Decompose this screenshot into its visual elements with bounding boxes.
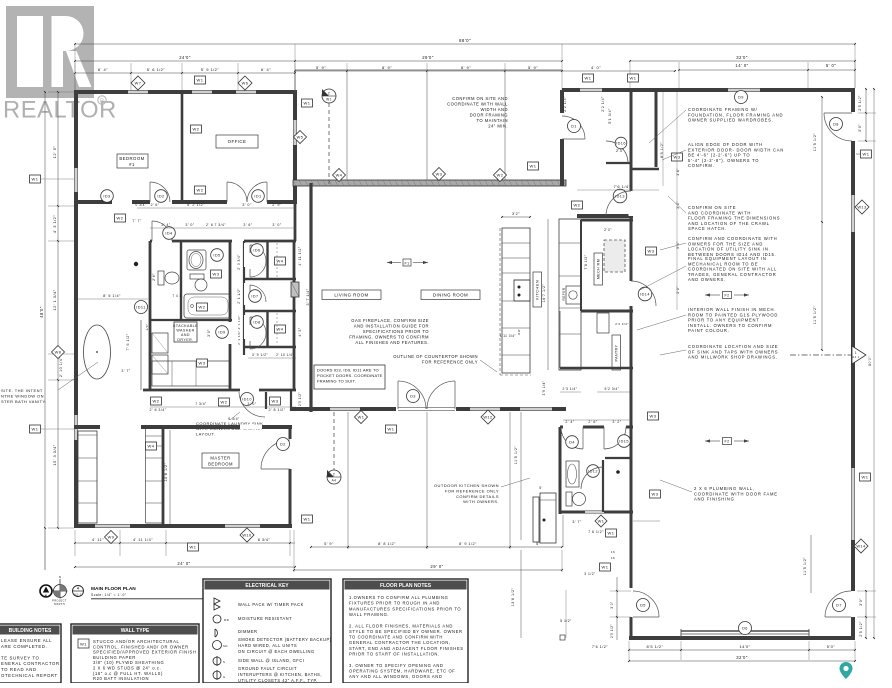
svg-text:5'1 3/4": 5'1 3/4" — [608, 108, 612, 124]
svg-text:BUILDING PAPER: BUILDING PAPER — [93, 655, 136, 660]
svg-text:DW: DW — [517, 329, 521, 335]
svg-text:2' 3 3/4": 2' 3 3/4" — [237, 254, 241, 270]
svg-text:1.OWNERS TO CONFIRM ALL PLUMBI: 1.OWNERS TO CONFIRM ALL PLUMBING — [349, 595, 448, 600]
svg-text:2'5 1/2": 2'5 1/2" — [298, 392, 302, 406]
svg-text:3' 9 1/2": 3' 9 1/2" — [252, 353, 269, 357]
svg-text:4' 3 1/2": 4' 3 1/2" — [52, 215, 57, 234]
svg-text:3/8" (10) PLYWD SHEATHING: 3/8" (10) PLYWD SHEATHING — [93, 660, 164, 665]
svg-text:ALL FINISHES AND FEATURES.: ALL FINISHES AND FEATURES. — [355, 340, 429, 345]
svg-text:POCKET DOORS. COORDINATE: POCKET DOORS. COORDINATE — [317, 373, 383, 378]
svg-text:SD: SD — [223, 644, 228, 648]
svg-text:INTERIOR WALL FINISH IN MECH.: INTERIOR WALL FINISH IN MECH. — [688, 307, 776, 312]
svg-text:FRAMING TO SUIT.: FRAMING TO SUIT. — [317, 379, 356, 384]
svg-text:0 3/4": 0 3/4" — [136, 203, 147, 207]
svg-text:5' 9": 5' 9" — [528, 65, 538, 70]
svg-text:W1: W1 — [585, 76, 592, 81]
svg-text:GROUND FAULT CIRCUIT: GROUND FAULT CIRCUIT — [238, 666, 297, 671]
svg-text:ALIGN EDGE OF DOOR WITH: ALIGN EDGE OF DOOR WITH — [688, 142, 763, 147]
svg-text:2'5 1/2": 2'5 1/2" — [610, 624, 614, 638]
svg-text:WASHER: WASHER — [176, 329, 194, 333]
svg-text:FINAL EQUIPMENT LAYOUT IN: FINAL EQUIPMENT LAYOUT IN — [688, 256, 767, 261]
svg-text:FLOOR PLAN NOTES: FLOOR PLAN NOTES — [380, 583, 432, 589]
svg-text:ID16: ID16 — [616, 142, 626, 146]
svg-text:32'0": 32'0" — [736, 55, 748, 60]
svg-text:5' 9": 5' 9" — [324, 542, 334, 546]
svg-text:REFER: REFER — [562, 287, 566, 300]
svg-text:7'6 1/2": 7'6 1/2" — [592, 645, 608, 649]
svg-text:4' 11 1/2": 4' 11 1/2" — [298, 246, 302, 265]
svg-text:WALL PACK W/ TIMER PACK: WALL PACK W/ TIMER PACK — [238, 602, 304, 607]
svg-text:SPACE HATCH.: SPACE HATCH. — [688, 226, 727, 231]
svg-text:2'5 1/2": 2'5 1/2" — [859, 621, 863, 637]
svg-text:1: 1 — [855, 351, 857, 355]
svg-text:D5: D5 — [640, 604, 646, 608]
svg-text:8'5 1/2": 8'5 1/2" — [647, 644, 664, 649]
svg-text:8'5 1/2": 8'5 1/2" — [660, 142, 664, 158]
svg-text:SIDE WALL @ ISLAND, GFCI: SIDE WALL @ ISLAND, GFCI — [238, 658, 304, 663]
svg-text:ENERAL CONTRACTOR: ENERAL CONTRACTOR — [1, 661, 60, 666]
svg-text:Scale: 1/4" = 1'-0": Scale: 1/4" = 1'-0" — [91, 593, 127, 597]
svg-text:7'8 1/2": 7'8 1/2" — [584, 254, 588, 269]
svg-text:2' 6": 2' 6" — [588, 420, 597, 424]
svg-text:STYLE TO BE SPECIFIED BY OWNER: STYLE TO BE SPECIFIED BY OWNER. OWNER — [349, 629, 463, 634]
svg-text:MAIN FLOOR PLAN: MAIN FLOOR PLAN — [91, 586, 136, 592]
svg-text:AND: AND — [181, 333, 190, 337]
svg-text:FRAMING. OWNERS TO CONFIRM: FRAMING. OWNERS TO CONFIRM — [349, 335, 429, 340]
svg-text:OUTLINE OF COUNTERTOP SHOWN: OUTLINE OF COUNTERTOP SHOWN — [393, 354, 478, 359]
svg-text:COORDINATE WITH WALL: COORDINATE WITH WALL — [447, 102, 508, 107]
svg-text:W1: W1 — [304, 517, 311, 522]
svg-text:16'7 1/2": 16'7 1/2" — [542, 283, 546, 302]
svg-text:W3: W3 — [199, 361, 206, 366]
svg-text:2'2 1/4": 2'2 1/4" — [601, 96, 605, 112]
svg-text:AND MILLWORK SHOP DRAWINGS.: AND MILLWORK SHOP DRAWINGS. — [688, 355, 778, 360]
svg-text:3'0": 3'0" — [676, 286, 680, 294]
svg-text:W3: W3 — [650, 414, 657, 419]
svg-text:PRIOR TO ANY EQUIPMENT: PRIOR TO ANY EQUIPMENT — [688, 318, 760, 323]
svg-text:W6: W6 — [242, 81, 249, 86]
svg-text:WALL FRAMING.: WALL FRAMING. — [349, 612, 389, 617]
svg-text:W1: W1 — [863, 152, 870, 157]
svg-text:W1: W1 — [32, 427, 39, 432]
svg-text:ID1: ID1 — [254, 195, 261, 199]
svg-text:MANUFACTURES SPECIFICATIONS P: MANUFACTURES SPECIFICATIONS PRIOR TO — [349, 606, 461, 611]
svg-text:CONFIRM AND COORDINATE WITH: CONFIRM AND COORDINATE WITH — [688, 236, 777, 241]
svg-text:OPERATING SYSTEM, HARDWARE, ET: OPERATING SYSTEM, HARDWARE, ETC OF — [349, 668, 455, 673]
svg-text:W13: W13 — [857, 205, 866, 210]
svg-text:OUTDOOR KITCHEN SHOWN: OUTDOOR KITCHEN SHOWN — [434, 483, 499, 488]
svg-text:F1: F1 — [404, 262, 409, 266]
svg-text:6' 4": 6' 4" — [261, 67, 271, 72]
svg-text:2: 2 — [328, 92, 330, 96]
svg-text:W12: W12 — [483, 415, 492, 420]
svg-text:5' 6 1/2": 5' 6 1/2" — [147, 67, 166, 72]
svg-text:5' 2 1/2": 5' 2 1/2" — [187, 203, 205, 207]
svg-text:SITE. THE INTENT: SITE. THE INTENT — [1, 388, 43, 393]
svg-text:2' 3 1/4" 2' 1 1/2": 2' 3 1/4" 2' 1 1/2" — [237, 315, 241, 345]
svg-text:D6: D6 — [742, 627, 748, 631]
svg-text:STUCCO AND/OR ARCHITECTURAL: STUCCO AND/OR ARCHITECTURAL — [93, 639, 179, 644]
svg-text:WITH OWNERS.: WITH OWNERS. — [463, 499, 499, 504]
svg-text:3'0": 3'0" — [207, 329, 211, 337]
svg-text:8' 9": 8' 9" — [382, 65, 392, 70]
svg-text:3' 0": 3' 0" — [272, 223, 281, 227]
svg-text:3'0": 3'0" — [610, 601, 614, 609]
svg-text:W1: W1 — [80, 642, 87, 647]
svg-text:3' 6": 3' 6" — [243, 223, 252, 227]
svg-text:A2-1: A2-1 — [74, 593, 82, 597]
svg-text:2' 6 3/4": 2' 6 3/4" — [149, 408, 166, 412]
svg-text:#1: #1 — [129, 162, 135, 167]
svg-text:ID5: ID5 — [213, 254, 220, 258]
svg-text:3'2": 3'2" — [512, 212, 520, 216]
svg-text:4' 11": 4' 11" — [92, 538, 104, 542]
svg-text:W1: W1 — [304, 101, 311, 106]
svg-text:DRYER.: DRYER. — [177, 338, 193, 342]
svg-text:W1: W1 — [862, 475, 869, 480]
svg-text:D4: D4 — [569, 441, 575, 445]
svg-text:W3: W3 — [652, 492, 659, 497]
svg-text:5'2 3/4": 5'2 3/4" — [605, 387, 620, 391]
svg-text:7' 7": 7' 7" — [132, 219, 142, 223]
svg-text:F2: F2 — [724, 440, 729, 444]
svg-text:(16" o.c @ FULL HT. WALLS): (16" o.c @ FULL HT. WALLS) — [93, 671, 163, 676]
svg-text:3'0": 3'0" — [676, 201, 680, 209]
svg-text:SPECIFICATIONS PRIOR TO: SPECIFICATIONS PRIOR TO — [363, 329, 429, 334]
svg-text:2' 6": 2' 6" — [151, 203, 160, 207]
svg-text:5' 0": 5' 0" — [826, 63, 836, 68]
svg-text:W1: W1 — [197, 78, 204, 83]
svg-text:2 X 6 WD STUDS @ 24" o.c.: 2 X 6 WD STUDS @ 24" o.c. — [93, 666, 161, 671]
svg-text:MOISTURE RESISTANT: MOISTURE RESISTANT — [238, 616, 292, 621]
svg-text:F2: F2 — [724, 294, 729, 298]
svg-text:ELECTRICAL KEY: ELECTRICAL KEY — [245, 583, 289, 589]
svg-text:BUILDING NOTES: BUILDING NOTES — [9, 628, 52, 634]
svg-text:29' 0": 29' 0" — [430, 564, 443, 569]
svg-text:4' 0": 4' 0" — [591, 65, 601, 70]
svg-text:1'11 3/4": 1'11 3/4" — [500, 334, 516, 338]
svg-text:ID10: ID10 — [242, 398, 252, 402]
svg-text:16: 16 — [611, 556, 615, 560]
svg-text:7' 6 1/2": 7' 6 1/2" — [126, 333, 130, 350]
svg-text:12' 1 3/4": 12' 1 3/4" — [52, 289, 57, 310]
svg-text:2' 10 1/4": 2' 10 1/4" — [276, 353, 294, 357]
svg-text:OWNER SUPPLIED WARDROBES.: OWNER SUPPLIED WARDROBES. — [688, 118, 774, 123]
svg-text:W9: W9 — [108, 535, 115, 540]
svg-text:G: G — [223, 675, 226, 679]
svg-text:W1: W1 — [630, 76, 637, 81]
svg-text:11'5 1/2": 11'5 1/2" — [514, 446, 518, 465]
svg-text:COORDINATE WITH DOOR FAME: COORDINATE WITH DOOR FAME — [694, 491, 778, 496]
svg-text:2' 8 1/2": 2' 8 1/2" — [268, 408, 285, 412]
svg-text:DIMMER: DIMMER — [238, 629, 257, 634]
svg-text:12' 5": 12' 5" — [52, 146, 57, 159]
svg-text:W2: W2 — [221, 400, 228, 405]
svg-text:CONFIRM.: CONFIRM. — [688, 163, 714, 168]
svg-text:5' 9 1/2": 5' 9 1/2" — [201, 67, 220, 72]
svg-text:8' 9": 8' 9" — [461, 65, 471, 70]
svg-text:W1: W1 — [190, 545, 197, 550]
svg-text:SMOKE DETECTOR (BATTERY BACKUP: SMOKE DETECTOR (BATTERY BACKUP) — [238, 637, 332, 642]
svg-text:3' 0": 3' 0" — [242, 203, 252, 207]
svg-text:W14: W14 — [856, 544, 866, 549]
svg-text:PANTRY: PANTRY — [615, 344, 619, 361]
svg-text:29'0": 29'0" — [422, 55, 434, 60]
svg-text:3. OWNER TO SPECIFY OPENING AN: 3. OWNER TO SPECIFY OPENING AND — [349, 663, 444, 668]
svg-text:W4: W4 — [336, 173, 343, 178]
svg-text:7'6 1/4": 7'6 1/4" — [614, 184, 631, 189]
svg-text:BEDROOM: BEDROOM — [119, 156, 144, 161]
svg-text:GAS FIREPLACE, CONFIRM SIZE: GAS FIREPLACE, CONFIRM SIZE — [351, 318, 429, 323]
svg-text:ID6: ID6 — [253, 249, 260, 253]
svg-text:ID8: ID8 — [253, 321, 260, 325]
svg-text:14'0": 14'0" — [739, 644, 750, 649]
svg-text:FOR REFERENCE ONLY: FOR REFERENCE ONLY — [445, 488, 499, 493]
svg-text:R20 BATT INSULATION: R20 BATT INSULATION — [93, 676, 149, 681]
svg-text:2' 9": 2' 9" — [272, 203, 282, 207]
svg-text:ID15: ID15 — [619, 440, 629, 444]
svg-text:AND FINISHING: AND FINISHING — [694, 497, 735, 502]
svg-text:FIXTURES PRIOR TO ROUGH IN AND: FIXTURES PRIOR TO ROUGH IN AND — [349, 601, 440, 606]
svg-text:PAINT COLOUR.: PAINT COLOUR. — [688, 328, 730, 333]
svg-text:48'0": 48'0" — [39, 306, 44, 318]
svg-text:CONFIRM ON SITE AND: CONFIRM ON SITE AND — [452, 96, 508, 101]
svg-text:LOCATION OF UTILITY SINK IN: LOCATION OF UTILITY SINK IN — [688, 247, 769, 252]
svg-text:ON CIRCUIT @ EACH DWELLING: ON CIRCUIT @ EACH DWELLING — [238, 649, 315, 654]
svg-text:MECH RM: MECH RM — [597, 259, 601, 279]
svg-text:FOUNDATION, FLOOR FRAMING AND: FOUNDATION, FLOOR FRAMING AND — [688, 112, 783, 117]
svg-text:LEASE ENSURE ALL: LEASE ENSURE ALL — [1, 638, 52, 643]
svg-text:W4: W4 — [277, 259, 284, 264]
svg-text:INTERUPTERS @ KITCHEN, BATHS,: INTERUPTERS @ KITCHEN, BATHS, — [238, 672, 322, 677]
svg-text:DOOR FRAMING: DOOR FRAMING — [470, 113, 508, 118]
svg-text:W4: W4 — [277, 327, 284, 332]
svg-text:2' 6 7 3/4": 2' 6 7 3/4" — [206, 223, 226, 227]
svg-text:16: 16 — [611, 550, 615, 554]
svg-text:3 1/2": 3 1/2" — [584, 572, 596, 576]
svg-text:LIVING ROOM: LIVING ROOM — [334, 293, 368, 298]
svg-text:D2: D2 — [280, 443, 286, 447]
svg-text:6' 4": 6' 4" — [98, 67, 108, 72]
svg-text:4' 11 1/4": 4' 11 1/4" — [133, 538, 153, 542]
svg-text:FLOOR FRAMING THE DIMENSIONS: FLOOR FRAMING THE DIMENSIONS — [688, 216, 780, 221]
svg-text:4: 4 — [77, 587, 79, 591]
svg-text:5'0": 5'0" — [827, 644, 836, 649]
svg-text:2'3": 2'3" — [604, 228, 612, 232]
svg-text:2' 4": 2' 4" — [565, 420, 574, 424]
svg-text:2'3 1/4": 2'3 1/4" — [563, 387, 578, 391]
svg-text:N: N — [45, 594, 48, 598]
svg-text:TO READ AND: TO READ AND — [1, 667, 37, 672]
svg-text:5' 9": 5' 9" — [316, 65, 326, 70]
svg-text:15' 3 3/4": 15' 3 3/4" — [52, 444, 57, 465]
svg-text:HARD WIRED, ALL UNITS: HARD WIRED, ALL UNITS — [238, 643, 297, 648]
svg-text:EXTERIOR DOOR- DOOR WIDTH CAN: EXTERIOR DOOR- DOOR WIDTH CAN — [688, 147, 784, 152]
svg-text:3' 7": 3' 7" — [572, 520, 582, 524]
svg-text:W1: W1 — [32, 177, 39, 182]
svg-text:D8: D8 — [833, 123, 839, 127]
svg-text:STACKABLE: STACKABLE — [173, 324, 198, 328]
svg-text:13'6 1/2": 13'6 1/2" — [511, 587, 515, 606]
svg-text:88'0": 88'0" — [459, 38, 471, 43]
svg-text:UTILITY CLOSETS 42" A.F.F., TY: UTILITY CLOSETS 42" A.F.F., TYP. — [238, 678, 318, 683]
svg-text:W1: W1 — [388, 427, 395, 432]
svg-text:W2: W2 — [117, 216, 124, 221]
svg-text:ANY AND ALL WINDOWS, DOORS AND: ANY AND ALL WINDOWS, DOORS AND — [349, 674, 442, 679]
svg-text:2. ALL FLOOR FINISHES, MATERIA: 2. ALL FLOOR FINISHES, MATERIALS AND — [349, 623, 453, 628]
svg-text:8 3/4": 8 3/4" — [258, 538, 271, 542]
svg-text:10'8 1/2": 10'8 1/2" — [164, 462, 168, 481]
svg-text:1/4": 1/4" — [145, 323, 149, 330]
svg-text:11'5 1/2": 11'5 1/2" — [813, 306, 817, 325]
svg-text:CONFIRM DETAILS: CONFIRM DETAILS — [456, 494, 499, 499]
svg-text:TRADES, GENERAL CONTRACTOR: TRADES, GENERAL CONTRACTOR — [688, 272, 777, 277]
svg-text:CONFIRM ON SITE: CONFIRM ON SITE — [688, 205, 736, 210]
svg-text:CONTROL. FINISHED AND/ OR OWNE: CONTROL. FINISHED AND/ OR OWNER — [93, 644, 189, 649]
svg-text:A4: A4 — [332, 479, 337, 483]
svg-text:8' 8 1/2": 8' 8 1/2" — [378, 542, 396, 546]
svg-text:A4.1: A4.1 — [852, 355, 859, 359]
svg-text:8' 9 1/2": 8' 9 1/2" — [459, 542, 477, 546]
svg-text:DOORS ID3, ID9, ID11 ARE TO: DOORS ID3, ID9, ID11 ARE TO — [317, 368, 379, 373]
svg-text:24' 0": 24' 0" — [177, 561, 190, 566]
svg-text:7 3/4": 7 3/4" — [195, 402, 207, 406]
svg-text:ID11: ID11 — [136, 306, 146, 310]
svg-text:D9: D9 — [738, 96, 744, 100]
svg-text:2'2 3/4": 2'2 3/4" — [615, 322, 629, 326]
svg-text:WIDTH AND: WIDTH AND — [480, 107, 508, 112]
svg-text:11'5 1/2": 11'5 1/2" — [813, 133, 817, 152]
svg-text:W2: W2 — [197, 188, 204, 193]
svg-text:COORDINATE LOCATION AND SIZE: COORDINATE LOCATION AND SIZE — [688, 344, 778, 349]
svg-text:2' 4": 2' 4" — [161, 223, 170, 227]
svg-text:W2: W2 — [497, 173, 504, 178]
svg-text:PRIOR TO START OF INSTALLATION: PRIOR TO START OF INSTALLATION. — [349, 652, 440, 657]
svg-text:WALL TYPE: WALL TYPE — [121, 628, 150, 634]
svg-text:TO COORDINATE AND CONFIRM WITH: TO COORDINATE AND CONFIRM WITH — [349, 635, 443, 640]
svg-text:8' 5 1/4": 8' 5 1/4" — [103, 294, 121, 298]
svg-text:AND LOCATION OF THE CRAWL: AND LOCATION OF THE CRAWL — [688, 221, 770, 226]
svg-text:DINING ROOM: DINING ROOM — [433, 293, 468, 298]
svg-text:BEDROOM: BEDROOM — [208, 462, 233, 467]
svg-text:TO MAINTAIN: TO MAINTAIN — [476, 118, 508, 123]
svg-text:W3: W3 — [272, 399, 279, 404]
svg-text:W8: W8 — [55, 350, 62, 355]
svg-text:3'9 1/4": 3'9 1/4" — [542, 380, 546, 395]
svg-text:W2: W2 — [193, 127, 200, 132]
svg-text:S: S — [223, 660, 225, 664]
svg-text:14' 0": 14' 0" — [735, 63, 748, 68]
svg-text:R: R — [100, 98, 104, 104]
svg-text:7 4 3: 7 4 3 — [172, 294, 181, 298]
svg-text:5'-4" (2-2'-8"). OWNERS TO: 5'-4" (2-2'-8"). OWNERS TO — [688, 158, 759, 163]
svg-text:3' 0": 3' 0" — [185, 223, 194, 227]
svg-text:KITCHEN: KITCHEN — [535, 280, 540, 300]
svg-text:2' 10 1/4": 2' 10 1/4" — [59, 357, 63, 377]
svg-text:7 6 1/2": 7 6 1/2" — [588, 530, 604, 534]
svg-text:W1: W1 — [530, 164, 537, 169]
svg-text:W1: W1 — [326, 98, 332, 102]
svg-text:ID3: ID3 — [103, 195, 110, 199]
svg-text:3' 7 1/4": 3' 7 1/4" — [306, 288, 310, 305]
svg-text:ID4: ID4 — [165, 232, 172, 236]
svg-text:W2: W2 — [153, 399, 160, 404]
svg-text:INSTALL. OWNERS TO CONFIRM: INSTALL. OWNERS TO CONFIRM — [688, 323, 772, 328]
svg-text:BE 4'-6" (2-2'-6") UP TO: BE 4'-6" (2-2'-6") UP TO — [688, 153, 750, 158]
svg-text:ID2: ID2 — [157, 195, 164, 199]
svg-text:2 X 6 PLUMBING WALL,: 2 X 6 PLUMBING WALL, — [694, 486, 755, 491]
svg-text:W1: W1 — [358, 415, 365, 420]
svg-text:W2: W2 — [199, 305, 206, 310]
svg-text:1'8": 1'8" — [676, 168, 680, 176]
svg-text:3'0": 3'0" — [859, 598, 863, 606]
svg-text:2: 2 — [333, 473, 335, 477]
svg-text:LAYOUT.: LAYOUT. — [196, 431, 216, 436]
svg-text:24'0": 24'0" — [179, 55, 191, 60]
svg-text:MECHANICAL ROOM TO BE: MECHANICAL ROOM TO BE — [688, 261, 758, 266]
svg-text:5': 5' — [539, 486, 542, 490]
svg-text:2' 1 1/2": 2' 1 1/2" — [237, 288, 241, 304]
svg-text:W3: W3 — [213, 272, 220, 277]
svg-text:W1: W1 — [598, 519, 605, 524]
svg-text:ARE COMPLETED.: ARE COMPLETED. — [1, 644, 47, 649]
svg-text:5': 5' — [536, 542, 540, 546]
svg-text:ID7: ID7 — [251, 295, 258, 299]
svg-text:NORTH: NORTH — [54, 603, 65, 606]
svg-text:TE SURVEY TO: TE SURVEY TO — [1, 655, 39, 660]
svg-text:ID13: ID13 — [615, 195, 625, 199]
svg-text:W3: W3 — [436, 172, 443, 177]
svg-text:MASTER: MASTER — [210, 456, 230, 461]
svg-text:W3: W3 — [648, 249, 655, 254]
svg-text:NTRE WINDOW ON: NTRE WINDOW ON — [1, 394, 44, 399]
svg-text:AND OWNERS.: AND OWNERS. — [688, 277, 726, 282]
svg-text:D1: D1 — [571, 125, 577, 129]
svg-text:OF SINK AND TAPS WITH OWNERS: OF SINK AND TAPS WITH OWNERS — [688, 349, 778, 354]
svg-text:24" MIN.: 24" MIN. — [488, 124, 508, 129]
svg-text:N: N — [59, 575, 62, 579]
svg-text:OTECHNICAL REPORT: OTECHNICAL REPORT — [1, 673, 58, 678]
svg-text:32'0": 32'0" — [736, 655, 748, 660]
svg-text:D7: D7 — [836, 604, 842, 608]
svg-text:COORDINATE FRAMING W/: COORDINATE FRAMING W/ — [688, 107, 758, 112]
svg-text:SPECIFIED/APPROVED EXTERIOR FI: SPECIFIED/APPROVED EXTERIOR FINISH — [93, 650, 196, 655]
svg-text:11'5 1/2": 11'5 1/2" — [803, 557, 807, 576]
svg-text:W10: W10 — [242, 533, 252, 538]
svg-text:2'2 1/4": 2'2 1/4" — [563, 96, 567, 112]
svg-text:GENERAL CONTRACTOR THE LOCATIO: GENERAL CONTRACTOR THE LOCATION, — [349, 640, 451, 645]
svg-text:ROOM TO PAINTED G1S PLYWOOD: ROOM TO PAINTED G1S PLYWOOD — [688, 312, 778, 317]
svg-text:3'0": 3'0" — [858, 124, 862, 132]
svg-text:3' 2": 3' 2" — [612, 420, 621, 424]
svg-text:3' 0": 3' 0" — [247, 402, 256, 406]
svg-text:W1: W1 — [602, 565, 609, 570]
svg-text:OWNERS FOR THE SIZE AND: OWNERS FOR THE SIZE AND — [688, 241, 763, 246]
svg-text:80'0": 80'0" — [868, 356, 872, 366]
svg-text:FOR REFERENCE ONLY: FOR REFERENCE ONLY — [422, 360, 478, 365]
svg-text:AND INSTALLATION GUIDE FOR: AND INSTALLATION GUIDE FOR — [354, 324, 429, 329]
svg-text:AND COORDINATE WITH: AND COORDINATE WITH — [688, 210, 751, 215]
svg-text:OFFICE: OFFICE — [228, 139, 247, 144]
svg-text:W5: W5 — [297, 135, 304, 140]
svg-text:2'6": 2'6" — [152, 273, 156, 281]
svg-text:3' 7": 3' 7" — [121, 369, 130, 373]
svg-text:W1: W1 — [608, 531, 615, 536]
svg-text:W2: W2 — [574, 203, 581, 208]
svg-text:D3: D3 — [410, 395, 416, 399]
svg-text:ID9: ID9 — [218, 331, 225, 335]
svg-text:W7: W7 — [135, 81, 142, 86]
